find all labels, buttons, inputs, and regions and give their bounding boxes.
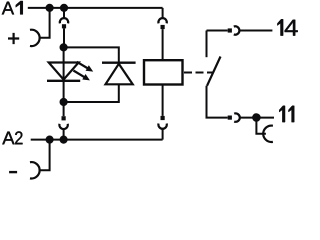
mechanical link dashed [184, 72, 213, 74]
wire coil bottom down [162, 85, 164, 116]
wire A1 dot2 down [63, 8, 65, 18]
plug socket LED branch bottom [59, 124, 67, 129]
wire A1 dot to clamp [40, 8, 50, 38]
node junction dot 11 [252, 113, 261, 122]
LED cathode bar [47, 80, 80, 82]
terminal label 11 [279, 106, 294, 122]
clamp contact A2 [30, 162, 40, 178]
plug socket contact 11 [234, 113, 240, 121]
wire A2 rail [31, 139, 163, 141]
wire node to 11 label [256, 117, 274, 119]
node LED bottom [60, 98, 68, 106]
node junction dot A1-clamp [46, 4, 54, 12]
wire A2 dot to clamp [40, 140, 50, 171]
wire LED branch vertical [63, 47, 65, 102]
plug pin coil top [161, 25, 165, 29]
plug pin LED branch top [62, 24, 66, 28]
plug pin coil bottom [161, 116, 165, 120]
LED triangle [49, 63, 79, 80]
plug pin LED branch bottom [62, 116, 66, 120]
wire socket to node 11 [240, 117, 257, 119]
contact blade NO [207, 57, 221, 86]
wire LED loop bottom [64, 84, 119, 102]
wire pin to coil [162, 29, 164, 60]
wire socket to 14 label [239, 30, 272, 32]
relay coil K1 [144, 60, 183, 84]
minus sign [9, 171, 17, 173]
wire node 11 down to clamp [256, 118, 266, 134]
plus sign [8, 33, 19, 44]
node LED top [60, 43, 68, 51]
wire pin to LED node [63, 28, 65, 47]
plug pin contact 11 [228, 116, 232, 120]
clamp contact A1 [30, 30, 40, 46]
wire A1 corner down to coil socket [162, 8, 164, 18]
wire LED loop top [64, 47, 119, 61]
clamp contact 11 [263, 126, 273, 142]
plug socket contact 14 [234, 26, 240, 34]
plug pin contact 14 [228, 28, 232, 32]
terminal label 14 [277, 19, 297, 35]
wire LED node down [63, 102, 65, 116]
contact fixed terminal [206, 31, 208, 58]
wire contact bottom [207, 86, 228, 118]
diode cathode bar [102, 62, 136, 64]
wire A1 rail [28, 7, 163, 9]
node junction dot A1-LED branch [60, 4, 68, 12]
terminal label A1 [2, 1, 23, 14]
diode D1 triangle [106, 64, 133, 85]
terminal label A2 [2, 131, 22, 144]
node junction dot A2-clamp [46, 136, 54, 144]
wire socket to A2 rail right end [162, 129, 164, 140]
LED emission arrow 2 [73, 71, 90, 81]
wire socket to A2 rail [63, 129, 65, 140]
wire contact top corner to terminal 14 [207, 30, 228, 32]
plug socket LED branch top [60, 18, 68, 23]
plug socket coil top [158, 18, 166, 23]
node junction dot A2-LED branch [60, 136, 68, 144]
LED emission arrow 1 [77, 62, 93, 72]
plug socket coil bottom [158, 124, 166, 129]
